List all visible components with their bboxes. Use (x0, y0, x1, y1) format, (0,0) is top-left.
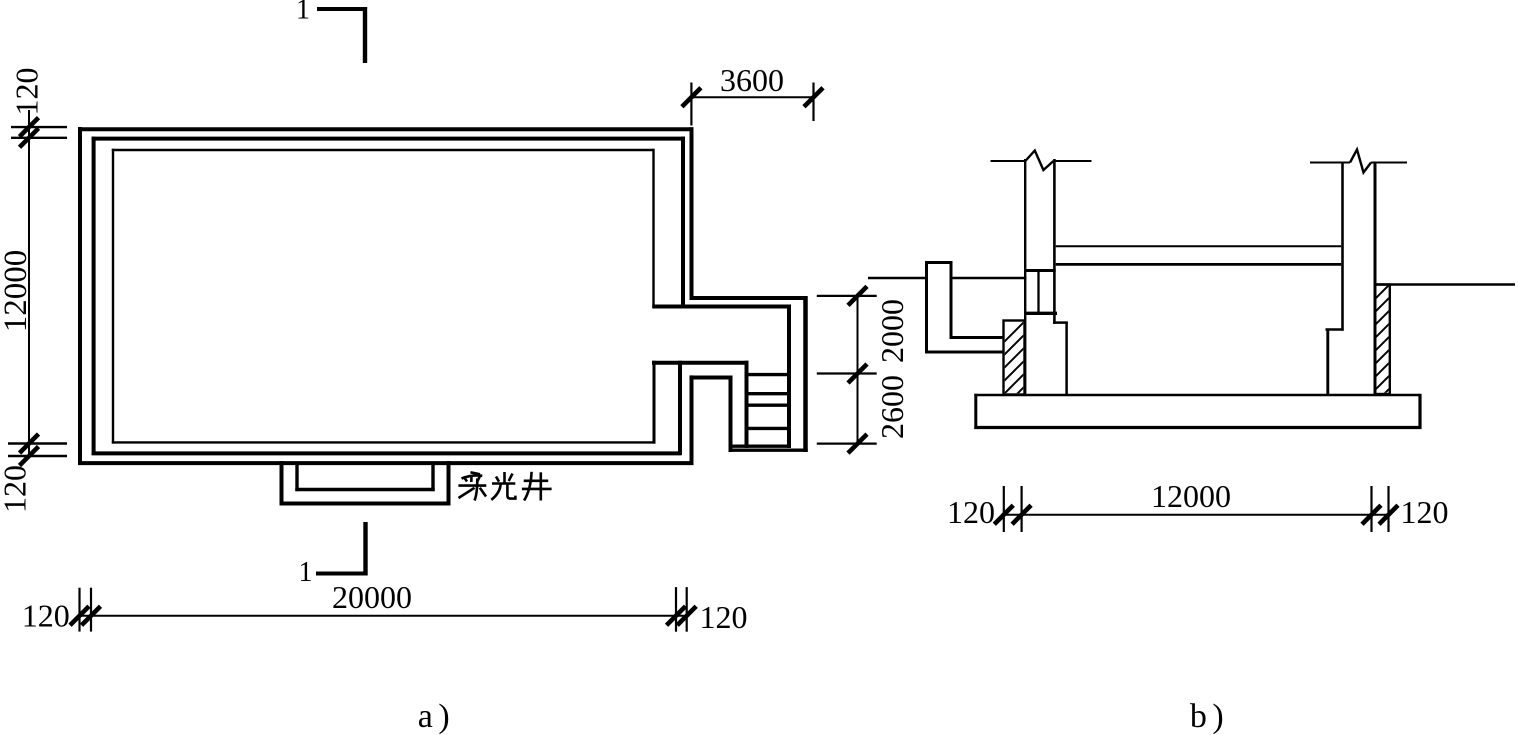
bottom dim tick 2 (82, 606, 101, 625)
left protective wall hatch lines (996, 306, 1040, 415)
char jing horizontal 1 (524, 479, 549, 482)
svg-text:120: 120 (22, 598, 70, 634)
section right wall right face (1374, 163, 1377, 395)
svg-text:120: 120 (947, 494, 995, 530)
right ground line (1374, 283, 1515, 286)
right protective wall hatch border (1375, 285, 1390, 395)
light well outer U right (447, 461, 451, 506)
section mark 1 bottom horizontal (316, 572, 368, 576)
svg-text:a): a) (418, 698, 455, 735)
corridor north outer horizontal (690, 296, 808, 300)
corridor south wall top horizontal (652, 361, 749, 365)
stair tread 1 (749, 373, 788, 376)
char cai dot mid (470, 476, 473, 482)
left dim line vertical (28, 110, 30, 457)
svg-text:120: 120 (700, 599, 748, 635)
left dim tick 1 (20, 118, 39, 137)
svg-text:120: 120 (0, 465, 33, 513)
well floor top horizontal (950, 336, 1004, 339)
section left wall lower right face (1065, 322, 1068, 396)
char guang left leg (491, 484, 500, 500)
char guang top vertical (503, 472, 506, 483)
section right wall step horizontal (1326, 328, 1344, 331)
wall inner-left vertical (92, 137, 96, 455)
corridor south wall right vertical (745, 361, 749, 448)
thin inner line top (112, 149, 655, 151)
right dim extension top (817, 295, 877, 297)
section dim extension left outer (1003, 486, 1005, 532)
section mark 1 top horizontal (317, 7, 367, 11)
char guang right dot (509, 474, 513, 482)
light well inner U left (295, 463, 298, 491)
section dim tick 1 (994, 505, 1013, 524)
left dim tick 3 (20, 434, 39, 453)
top-right dim tick left (682, 88, 701, 107)
bottom dim tick 4 (677, 606, 696, 625)
section dim extension right inner (1370, 486, 1372, 532)
char cai vertical (475, 479, 478, 501)
corridor south wall mid-step vertical (678, 361, 682, 455)
left dim extension top outer (11, 126, 67, 128)
char guang right leg hook (507, 484, 515, 499)
left wall break zigzag (1025, 151, 1053, 171)
right wall break zigzag (1350, 150, 1371, 173)
char jing left vertical (524, 472, 532, 501)
bottom dim tick 1 (70, 606, 89, 625)
door jamb thin vertical (653, 361, 656, 444)
thin inner line bottom (112, 441, 656, 443)
left wall top line left part (991, 160, 1026, 162)
left dim extension bottom outer (8, 455, 67, 457)
svg-text:20000: 20000 (332, 579, 412, 615)
char cai dot right (478, 475, 481, 481)
section left wall right face (1053, 159, 1056, 324)
section dim extension left inner (1020, 486, 1022, 532)
section dim line horizontal (1001, 514, 1390, 516)
notch right vertical (729, 376, 733, 453)
char cai top stroke (471, 472, 481, 474)
thin inner line right vertical upper (652, 149, 654, 308)
light well outer U left (280, 461, 284, 506)
right dim extension bottom (817, 443, 877, 445)
east inner wall vertical (787, 305, 791, 449)
top-right dim extension right (812, 83, 814, 122)
foundation slab right edge (1418, 394, 1421, 429)
wall top-right outer vertical (690, 127, 694, 300)
right dim tick top (848, 286, 867, 305)
right wall top line left part (1310, 162, 1350, 164)
wall top-right inner vertical (681, 137, 685, 307)
notch top horizontal (690, 376, 733, 380)
well wall outer vertical (925, 261, 928, 354)
left dim extension bottom inner (8, 442, 67, 444)
top-right dim 3600 line (690, 96, 815, 98)
svg-text:12000: 12000 (0, 250, 34, 333)
char cai cover slant (462, 475, 483, 478)
section right wall lower left face (1326, 329, 1329, 396)
foundation slab top line (974, 394, 1420, 397)
floor slab lower line (1056, 263, 1342, 266)
stair bottom inner horizontal (729, 445, 791, 448)
char cai left diagonal (459, 488, 475, 498)
light well inner U bottom (295, 488, 434, 491)
wall bottom outer horizontal (78, 461, 694, 465)
window head (1024, 269, 1056, 272)
well wall inner vertical (950, 261, 953, 339)
svg-text:2600: 2600 (874, 375, 910, 439)
bottom dim extension right inner (675, 587, 677, 632)
section dim tick 2 (1012, 505, 1031, 524)
right dim tick middle (848, 364, 867, 383)
char jing horizontal 2 (522, 488, 552, 491)
well floor bottom horizontal (925, 351, 1004, 354)
bottom dim tick 3 (667, 606, 686, 625)
char jing right vertical (539, 472, 542, 500)
left wall top line right part (1054, 160, 1092, 162)
east outer wall vertical (803, 296, 808, 452)
section left wall step horizontal (1053, 321, 1068, 324)
section mark 1 top vertical (363, 7, 367, 63)
char cai right diagonal (480, 488, 486, 497)
svg-text:120: 120 (1401, 494, 1449, 530)
svg-text:120: 120 (9, 68, 45, 116)
wall outer-top horizontal (78, 127, 694, 131)
right dim tick bottom (848, 434, 867, 453)
label caiguangjing (light well) (458, 472, 551, 501)
floor slab upper line (1056, 245, 1342, 247)
section dim extension right outer (1387, 486, 1389, 532)
char guang left dot (496, 477, 499, 482)
right protective wall hatch lines (1368, 276, 1398, 410)
top-right dim tick right (804, 88, 823, 107)
svg-text:12000: 12000 (1151, 478, 1231, 514)
left protective wall hatch border (1004, 321, 1025, 395)
light well outer U bottom (280, 502, 451, 506)
svg-text:2000: 2000 (874, 299, 910, 363)
stair bottom outer horizontal (729, 449, 808, 452)
light well inner U right (431, 463, 434, 491)
svg-text:b): b) (1190, 698, 1229, 735)
section dim tick 3 (1362, 505, 1381, 524)
corridor north inner horizontal / door jamb (652, 305, 791, 309)
left dim extension top inner (11, 137, 67, 139)
char cai horizontal (458, 484, 486, 487)
svg-text:1: 1 (296, 0, 310, 26)
left dim tick 4 (20, 447, 39, 466)
section left wall left face (1024, 159, 1026, 395)
window sill (1024, 312, 1057, 315)
thin inner line left vertical (112, 149, 114, 444)
bottom dim extension left inner (90, 588, 92, 632)
top-right dim extension left (690, 83, 692, 126)
svg-text:3600: 3600 (720, 62, 784, 98)
bottom dim line horizontal (78, 615, 689, 617)
left ground line (868, 277, 928, 280)
stair tread 4 (749, 427, 788, 430)
right dim extension middle (817, 372, 877, 374)
wall bottom mid horizontal (92, 451, 682, 455)
char cai dot left (464, 477, 468, 482)
svg-text:1: 1 (299, 557, 313, 588)
well sill line (950, 277, 1027, 280)
stair tread 3 (749, 404, 788, 407)
right dim line vertical (857, 296, 859, 444)
bottom dim extension right outer (686, 587, 688, 632)
foundation slab left edge (974, 394, 977, 429)
section mark 1 bottom vertical (363, 522, 367, 576)
right wall top line right part (1371, 162, 1407, 164)
left dim tick 2 (20, 128, 39, 147)
window glass line (1037, 271, 1039, 312)
notch left vertical (690, 375, 694, 465)
well wall top horizontal (925, 261, 953, 264)
wall outer-left vertical (78, 127, 82, 465)
section dim tick 4 (1379, 505, 1398, 524)
wall inner-top horizontal (92, 137, 685, 141)
char guang horizontal (492, 482, 515, 485)
stair tread 2 (749, 392, 788, 395)
section right wall left face (1341, 163, 1344, 331)
foundation slab bottom line (974, 426, 1421, 429)
bottom dim extension left outer (78, 588, 80, 632)
